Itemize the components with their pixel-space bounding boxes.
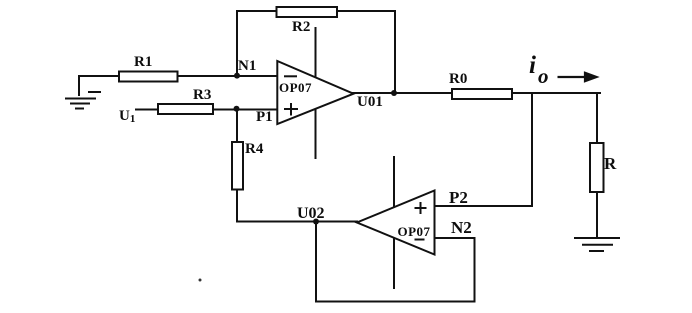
svg-text:R2: R2 xyxy=(292,19,310,35)
svg-text:R: R xyxy=(604,154,617,173)
svg-text:U02: U02 xyxy=(297,205,325,222)
svg-text:OP07: OP07 xyxy=(398,224,431,239)
svg-text:P1: P1 xyxy=(256,109,273,125)
svg-text:N2: N2 xyxy=(451,218,472,237)
svg-text:R4: R4 xyxy=(245,141,264,157)
svg-text:i: i xyxy=(529,52,536,79)
svg-text:U01: U01 xyxy=(357,94,383,110)
svg-text:N1: N1 xyxy=(238,58,256,74)
svg-text:R1: R1 xyxy=(134,54,152,70)
svg-text:P2: P2 xyxy=(449,188,468,207)
svg-text:o: o xyxy=(538,64,549,88)
svg-text:R0: R0 xyxy=(449,71,467,87)
svg-text:OP07: OP07 xyxy=(279,80,312,95)
svg-text:R3: R3 xyxy=(193,87,211,103)
